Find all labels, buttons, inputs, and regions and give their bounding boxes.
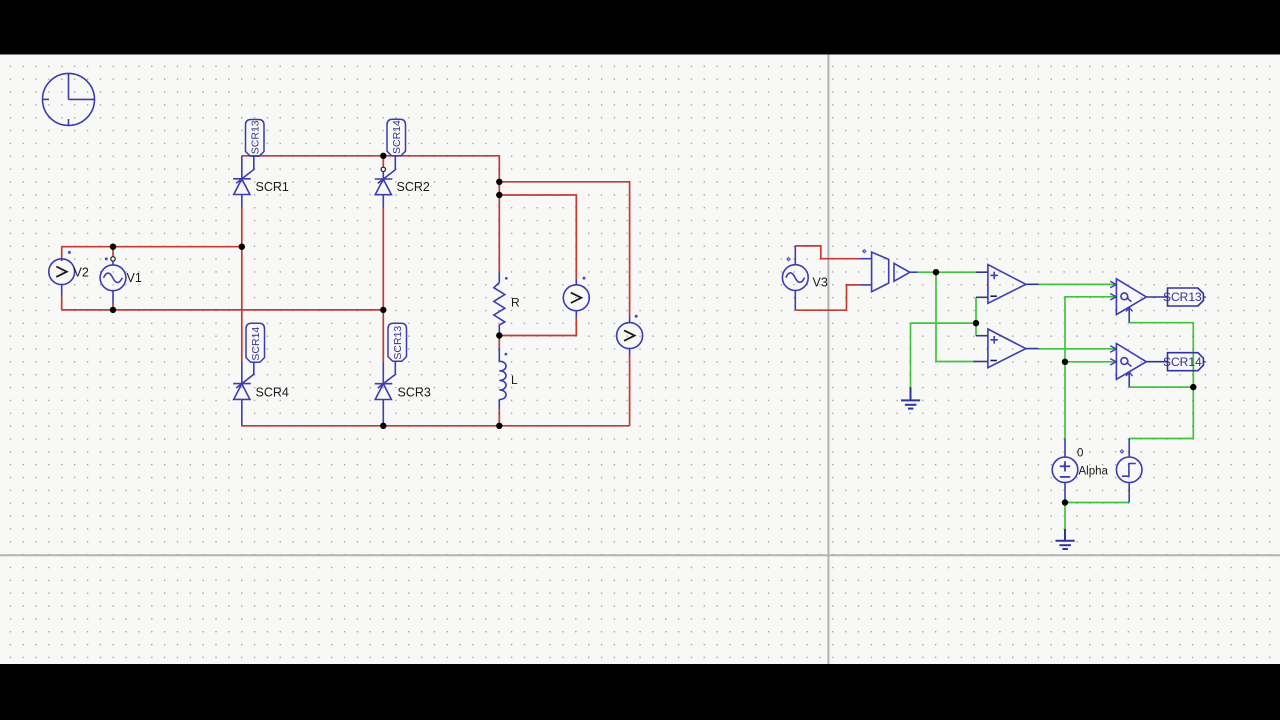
thyristor SCR4 (233, 361, 254, 426)
junction carrier node (933, 269, 939, 275)
junction V1 top bus (110, 244, 116, 250)
wire L bottom to bottom bus (498, 409, 500, 425)
svg-text:SCR13: SCR13 (250, 120, 262, 154)
wire SCR1-SCR4 column (241, 208, 243, 362)
wire comparator1 minus drop (975, 297, 977, 335)
svg-text:SCR13: SCR13 (1163, 290, 1202, 304)
source V3 (782, 246, 808, 310)
voltmeter VM2 (617, 315, 643, 355)
output tag SCR14 (1163, 353, 1206, 371)
svg-text:R: R (511, 296, 520, 310)
wire voltmeter inner loop bottom (499, 317, 576, 336)
svg-text:SCR13: SCR13 (392, 326, 404, 360)
junction R-L node (496, 332, 502, 338)
svg-text:V1: V1 (127, 271, 142, 285)
svg-text:SCR14: SCR14 (250, 327, 262, 361)
wire gating1 sync loop (1129, 323, 1193, 439)
inductor L (499, 348, 507, 410)
wire comparator2 output to gating2 (1039, 348, 1117, 350)
wire V2 bottom to lower bus (61, 297, 63, 310)
resistor R (494, 272, 508, 336)
gating block GB1 (1110, 279, 1167, 323)
ground G2 (1056, 529, 1075, 549)
buffer gain block (894, 263, 918, 281)
junction alpha node (1062, 359, 1068, 365)
comparator CMP2 (974, 329, 1039, 368)
source V1 (100, 257, 126, 304)
wire voltmeter outer bottom (629, 355, 631, 426)
wire voltmeter V loop outer (499, 182, 629, 317)
gate tag SCR13 above SCR3 (388, 323, 407, 361)
wire SCR2-SCR3 column (382, 208, 384, 362)
svg-text:SCR3: SCR3 (398, 386, 431, 400)
wire SCR2 cathode top stub (382, 156, 384, 168)
junction L bottom bus (496, 423, 502, 429)
wire alpha feed to gating2 (1065, 361, 1116, 363)
voltmeter VM1 (563, 277, 589, 317)
wire carrier node down to comparator 2 minus (936, 272, 974, 361)
junction SCR1 column middle bus (239, 244, 245, 250)
svg-text:SCR14: SCR14 (1163, 355, 1202, 369)
junction SCR3 bottom bus (380, 423, 386, 429)
wire alpha feed up branch (1065, 297, 1116, 439)
wire V1 top stub (112, 247, 114, 257)
clock icon (43, 73, 95, 125)
svg-text:V2: V2 (74, 266, 89, 280)
svg-text:Alpha: Alpha (1079, 466, 1109, 478)
svg-text:SCR2: SCR2 (397, 180, 430, 194)
wire gating2 sync branch (1129, 386, 1193, 388)
voltage sensor U1 (860, 250, 889, 292)
wire ground branch vertical (910, 323, 912, 387)
junction SCR2-SCR3 lower bus (380, 307, 386, 313)
wire carrier node to comparator 1 plus (918, 271, 977, 273)
junction ground branch node (973, 320, 979, 326)
wire top bus from SCR1/SCR2 cathodes to load branch (242, 156, 500, 272)
output tag SCR13 (1163, 288, 1206, 306)
junction load top inner (496, 192, 502, 198)
ammeter V2 (49, 251, 75, 297)
wire bottom bus (242, 425, 630, 427)
wire alpha ground drop (1064, 503, 1066, 529)
wire voltmeter inner loop top (499, 195, 576, 279)
wire source loop left side (61, 247, 63, 259)
junction alpha ground node (1062, 499, 1068, 505)
source Alpha (dc) (1052, 439, 1078, 503)
gate tag SCR14 above SCR2 (387, 119, 406, 156)
wire V1 bottom stub (112, 304, 114, 310)
svg-text:SCR4: SCR4 (256, 386, 289, 400)
gating block GB2 (1110, 344, 1167, 388)
wire V3 top to sensor (795, 246, 859, 259)
thyristor SCR1 (233, 156, 254, 208)
comparator CMP1 (976, 265, 1039, 304)
svg-text:SCR14: SCR14 (391, 120, 403, 154)
thyristor SCR3 (375, 361, 396, 425)
wire comparator1 output to gating1 (1039, 283, 1117, 285)
svg-text:0: 0 (1077, 448, 1083, 460)
gate tag SCR14 above SCR4 (246, 323, 265, 362)
svg-text:SCR1: SCR1 (256, 180, 289, 194)
junction load top outer (496, 179, 502, 185)
thyristor SCR2 (375, 156, 396, 208)
wire middle bus from source loop to SCR1 anode column (62, 246, 242, 248)
wire lower bus from source loop to SCR2/SCR3 column (62, 309, 384, 311)
junction sync node (1190, 384, 1196, 390)
wire ground branch horizontal (911, 322, 977, 324)
svg-text:L: L (511, 373, 518, 387)
wire R to L link (498, 336, 500, 348)
step source (1116, 439, 1142, 503)
junction V1 bottom bus (110, 307, 116, 313)
wire V3 bottom to sensor (795, 285, 859, 310)
junction SCR2 top bus (380, 153, 386, 159)
svg-text:V3: V3 (813, 276, 828, 290)
gate tag SCR13 above SCR1 (246, 120, 265, 157)
wire alpha source to step source bottom (1065, 502, 1129, 504)
ground G1 (901, 387, 920, 408)
